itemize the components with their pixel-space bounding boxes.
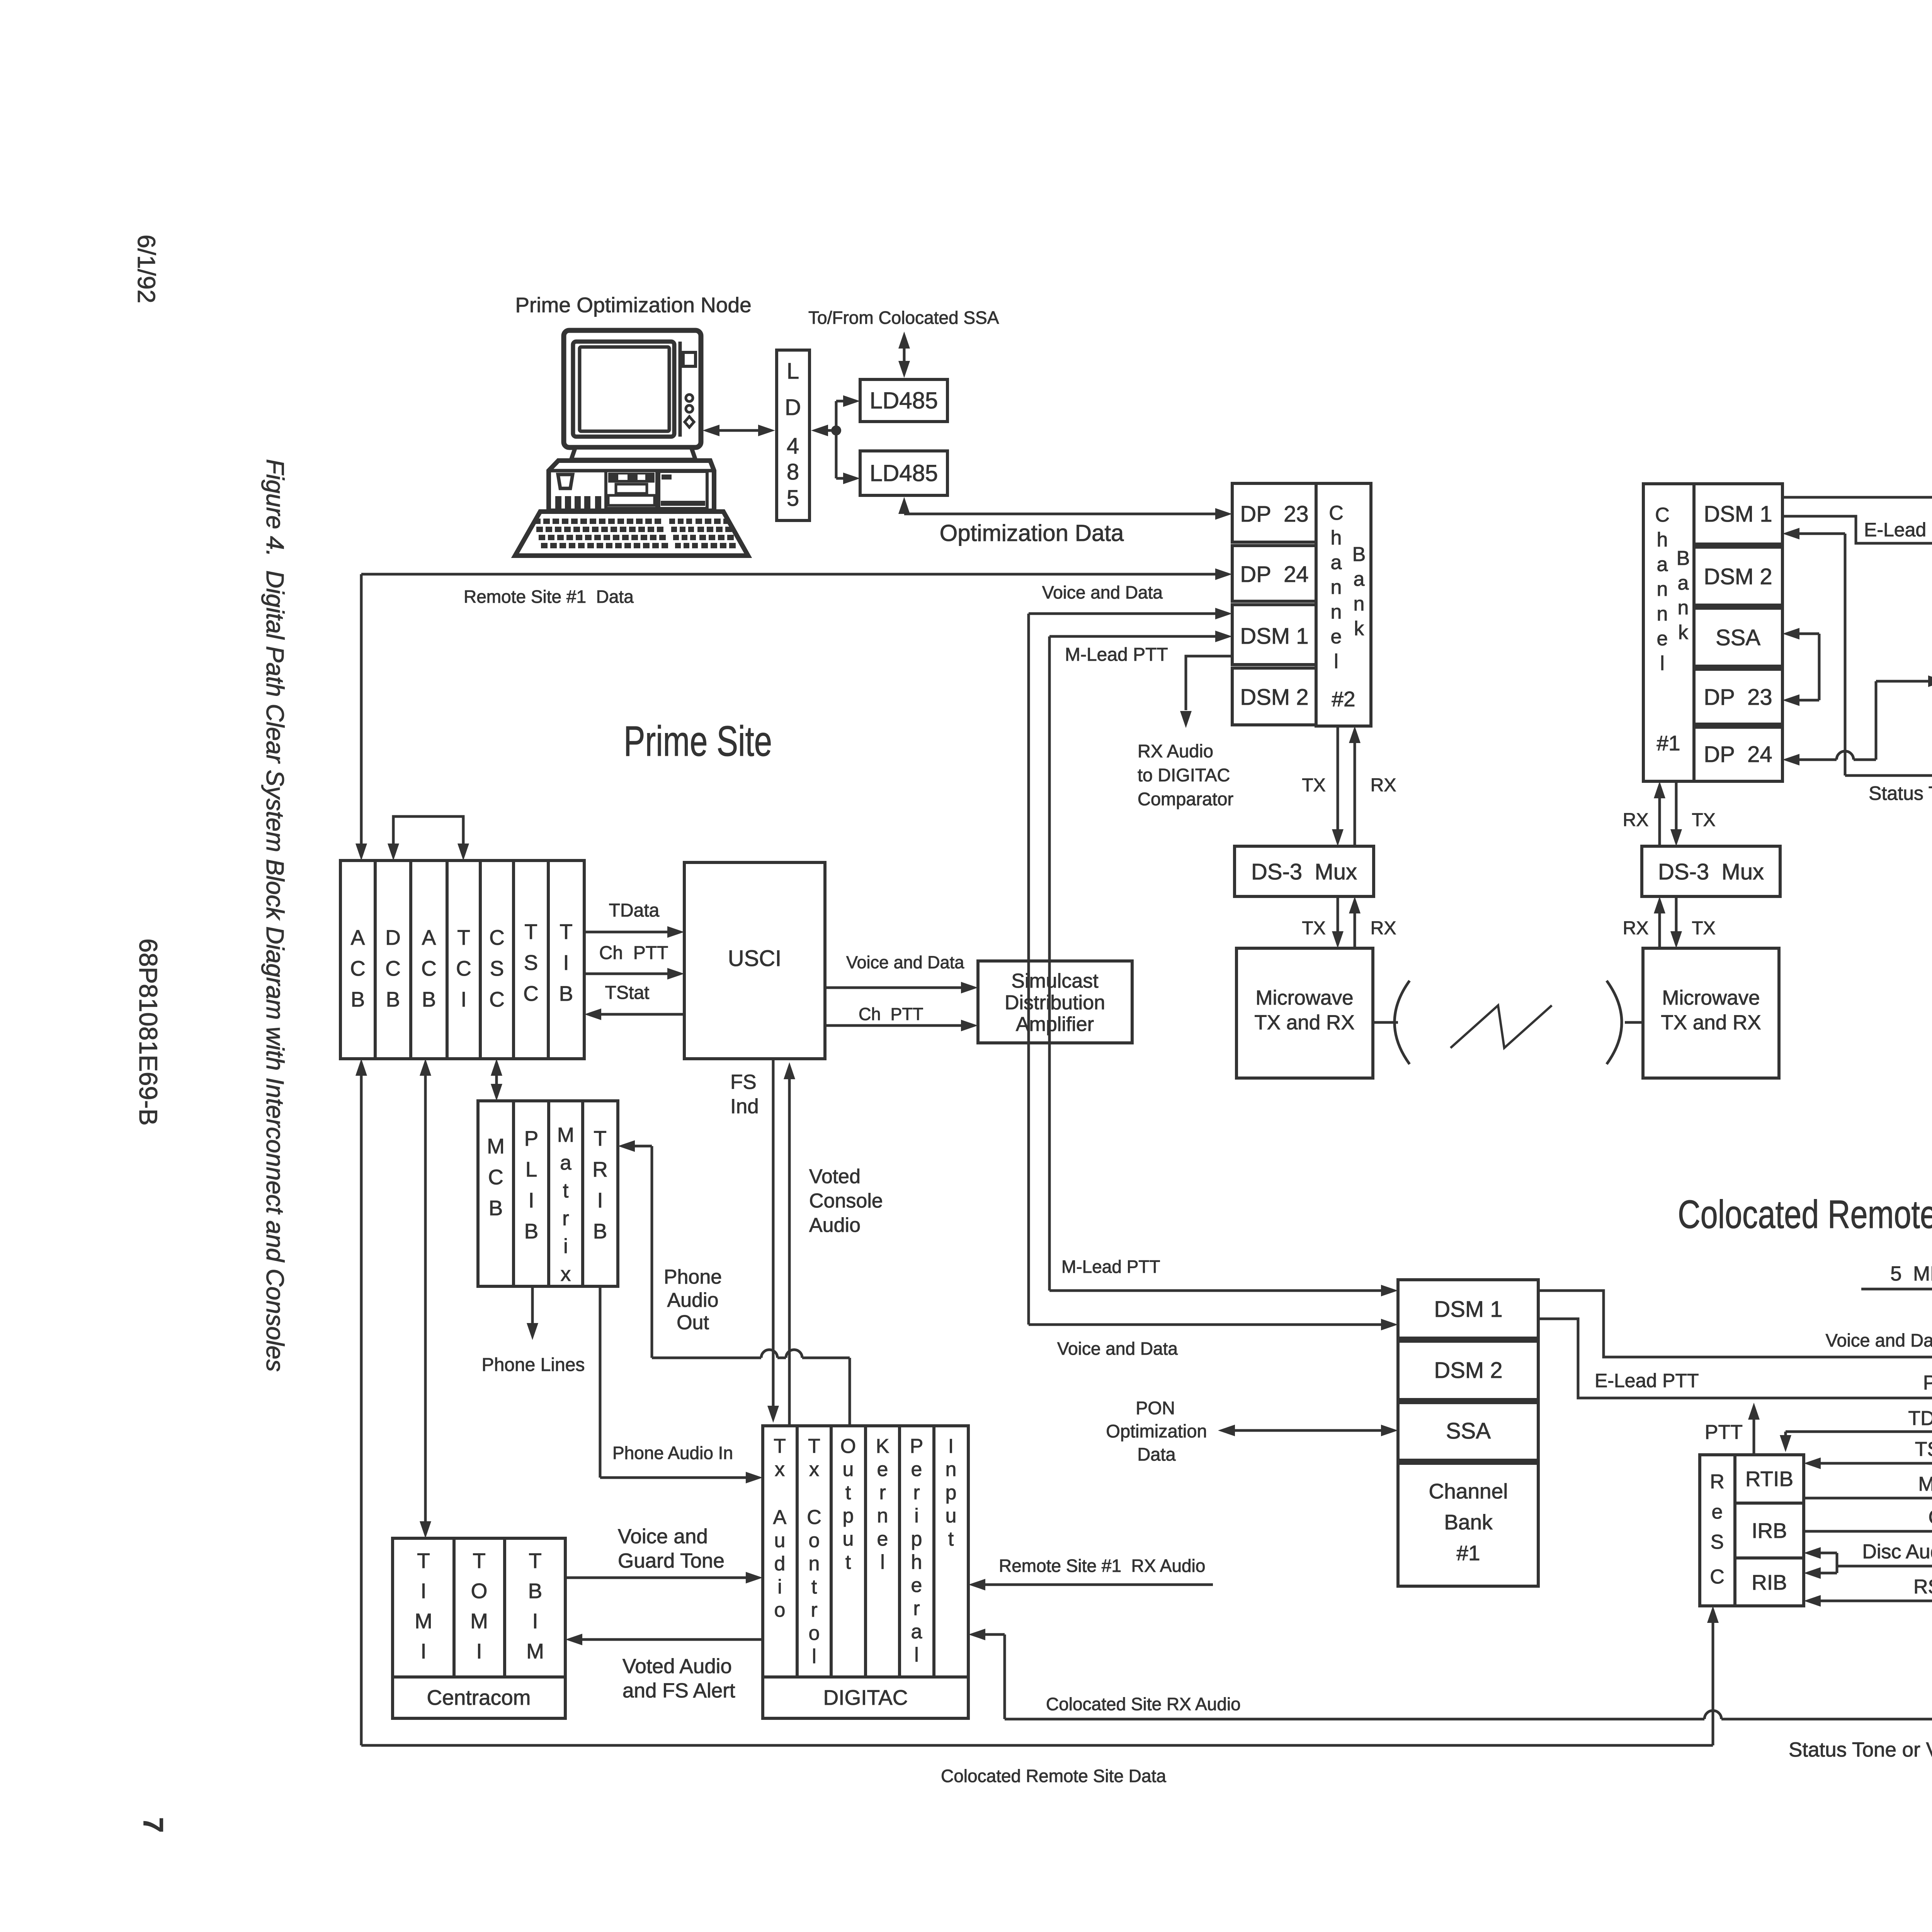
wire LD485 to branch junction xyxy=(827,429,836,432)
svg-text:SSA: SSA xyxy=(1446,1418,1491,1444)
wire RX microwave to DS-3 xyxy=(1354,913,1356,948)
svg-text:L: L xyxy=(526,1157,537,1181)
svg-text:l: l xyxy=(812,1645,816,1668)
svg-text:Phone Lines: Phone Lines xyxy=(482,1355,585,1375)
svg-text:p: p xyxy=(843,1505,854,1527)
svg-text:C: C xyxy=(489,987,505,1011)
svg-text:Ch PTT: Ch PTT xyxy=(599,943,668,963)
svg-text:Ind: Ind xyxy=(730,1095,759,1118)
block IRB (colocated) xyxy=(1735,1503,1804,1558)
block prime control rack xyxy=(340,861,584,1059)
svg-text:n: n xyxy=(877,1505,888,1527)
svg-text:C: C xyxy=(807,1506,821,1529)
svg-text:TX and RX: TX and RX xyxy=(1661,1011,1761,1034)
svg-text:RX Audio: RX Audio xyxy=(1138,741,1213,761)
svg-text:PON: PON xyxy=(1136,1398,1175,1418)
block USCI xyxy=(684,862,825,1059)
svg-text:A: A xyxy=(422,925,436,949)
svg-text:Optimization: Optimization xyxy=(1106,1421,1207,1441)
svg-text:Out: Out xyxy=(677,1311,709,1334)
wire Voice and Data into colocated DSM 1 xyxy=(1029,1323,1382,1326)
svg-text:h: h xyxy=(1657,529,1668,551)
wire phone audio out TRIB to DIGITAC Output xyxy=(634,1145,652,1148)
svg-text:S: S xyxy=(524,951,538,975)
block Microwave TX and RX (remote) xyxy=(1643,948,1779,1078)
wire Remote Site #1 RX Audio into DIGITAC xyxy=(985,1583,1213,1586)
svg-text:to DIGITAC: to DIGITAC xyxy=(1138,765,1230,785)
wire PTT RTIB to PTT line (colocated) xyxy=(1753,1419,1755,1455)
wire TStat USCI to rack xyxy=(600,1013,684,1016)
svg-text:n: n xyxy=(1331,576,1342,599)
svg-text:Voted Audio: Voted Audio xyxy=(622,1655,732,1678)
svg-text:Voice and Data: Voice and Data xyxy=(1057,1338,1178,1359)
svg-text:l: l xyxy=(914,1644,919,1666)
svg-text:e: e xyxy=(877,1458,888,1481)
svg-text:T: T xyxy=(594,1126,607,1150)
wire Phone Lines from PLIB xyxy=(531,1286,534,1324)
wire SSA to DP 23 loop (remote) xyxy=(1799,633,1819,635)
svg-text:a: a xyxy=(911,1621,922,1643)
svg-text:B: B xyxy=(351,987,365,1011)
svg-text:T: T xyxy=(457,925,470,949)
svg-text:Colocated Remote Site Data: Colocated Remote Site Data xyxy=(941,1766,1166,1786)
svg-text:7: 7 xyxy=(138,1817,168,1833)
wire RStat RX to RIB (colocated) xyxy=(1820,1600,1932,1602)
svg-text:t: t xyxy=(845,1551,851,1573)
wire TX DS-3 to microwave xyxy=(1337,896,1339,932)
svg-text:DP 23: DP 23 xyxy=(1704,685,1772,710)
svg-text:o: o xyxy=(809,1529,820,1552)
svg-text:8: 8 xyxy=(787,459,799,485)
wire RX microwave to DS-3 (remote) xyxy=(1658,913,1661,948)
svg-text:a: a xyxy=(560,1151,571,1174)
svg-text:B: B xyxy=(1677,547,1690,570)
svg-text:C: C xyxy=(523,981,539,1005)
wire bracket DCB-TCI tops xyxy=(393,816,463,844)
svg-text:DP 24: DP 24 xyxy=(1704,742,1772,767)
svg-text:r: r xyxy=(811,1599,817,1621)
svg-text:u: u xyxy=(843,1528,854,1550)
block colocated Channel Bank #1 xyxy=(1398,1463,1538,1586)
block colocated bank DSM 1 xyxy=(1398,1280,1538,1338)
svg-text:Microwave: Microwave xyxy=(1662,986,1760,1009)
svg-text:4: 4 xyxy=(787,434,799,459)
svg-text:I: I xyxy=(420,1579,426,1603)
svg-text:e: e xyxy=(1657,628,1668,650)
svg-text:I: I xyxy=(461,987,466,1011)
wire M-Lead PTT riser crossing Simulcast xyxy=(1048,961,1051,1043)
svg-text:C: C xyxy=(350,956,366,980)
svg-text:6/1/92: 6/1/92 xyxy=(133,235,160,303)
wire Voted Console Audio DIGITAC to USCI xyxy=(788,1078,791,1426)
svg-text:Prime Site: Prime Site xyxy=(624,718,772,765)
svg-text:o: o xyxy=(809,1622,820,1645)
svg-text:#2: #2 xyxy=(1332,687,1355,711)
svg-text:RStat: RStat xyxy=(1913,1576,1932,1598)
svg-text:SSA: SSA xyxy=(1716,625,1760,650)
block LD485 #1 xyxy=(860,379,947,422)
svg-text:Voice and: Voice and xyxy=(618,1525,708,1548)
block SSA (remote bank) xyxy=(1694,608,1782,666)
svg-text:TStat: TStat xyxy=(1915,1438,1932,1461)
wire TStat TX to RTIB (colocated) xyxy=(1820,1462,1932,1465)
svg-text:RTIB: RTIB xyxy=(1745,1467,1793,1491)
wire rack ACB to TIMI (bidirectional) xyxy=(424,1076,427,1522)
svg-text:n: n xyxy=(1657,578,1668,600)
wire Disc Audio RX to IRB and RIB (colocated) xyxy=(1837,1565,1932,1568)
computer monitor base xyxy=(571,447,696,460)
svg-text:B: B xyxy=(1352,543,1366,566)
block Microwave TX and RX (prime) xyxy=(1236,948,1373,1078)
svg-text:#1: #1 xyxy=(1656,731,1680,755)
svg-text:e: e xyxy=(911,1574,922,1597)
svg-text:Figure 4. Digital Path Clear: Figure 4. Digital Path Clear System Bloc… xyxy=(261,459,289,1372)
svg-text:Simulcast: Simulcast xyxy=(1011,970,1099,992)
svg-text:5: 5 xyxy=(787,486,799,511)
svg-text:To/From Colocated SSA: To/From Colocated SSA xyxy=(808,308,999,328)
wire prime rack to Colocated Remote Site Data xyxy=(360,1076,363,1745)
svg-text:B: B xyxy=(489,1196,503,1220)
svg-text:x: x xyxy=(775,1458,785,1481)
wire M-Lead PTT riser to DSM 1 (bank 2) xyxy=(1049,635,1216,638)
wire Mute RTIB to RX (colocated) xyxy=(1804,1497,1932,1500)
wire PON Optimization Data to SSA (bidirectional) xyxy=(1235,1429,1382,1432)
block colocated bank DSM 2 xyxy=(1398,1341,1538,1400)
svg-text:RX: RX xyxy=(1623,918,1649,939)
svg-text:p: p xyxy=(911,1528,922,1550)
svg-text:u: u xyxy=(946,1505,957,1527)
svg-text:u: u xyxy=(774,1529,786,1552)
block DSM 1 (bank 2) xyxy=(1232,605,1316,665)
wire Colocated Remote Site Data riser into ReSC xyxy=(1712,1622,1714,1745)
svg-text:K: K xyxy=(876,1435,889,1458)
svg-text:h: h xyxy=(911,1551,922,1573)
wire Remote Site #1 Data (from prime rack to DP 24) xyxy=(361,573,1216,576)
block LD485 line driver (tall) xyxy=(777,350,810,520)
wire Ch PTT USCI to Simulcast xyxy=(825,1024,962,1027)
svg-text:T: T xyxy=(560,920,573,944)
wire TData rack to USCI xyxy=(584,931,668,934)
svg-text:B: B xyxy=(593,1219,607,1243)
wire branch to LD485 #1 xyxy=(836,400,843,403)
svg-text:B: B xyxy=(559,981,573,1005)
svg-text:E-Lead PTT: E-Lead PTT xyxy=(1864,519,1932,541)
svg-text:C: C xyxy=(488,1165,503,1189)
computer monitor xyxy=(564,330,701,447)
svg-text:C: C xyxy=(385,956,401,980)
svg-text:l: l xyxy=(1660,652,1665,675)
svg-text:h: h xyxy=(1331,527,1342,549)
svg-text:x: x xyxy=(561,1263,571,1286)
wire M-Lead PTT into colocated DSM 1 xyxy=(1049,1289,1382,1292)
svg-text:t: t xyxy=(948,1528,954,1550)
svg-text:I: I xyxy=(563,951,569,975)
svg-text:k: k xyxy=(1354,617,1364,640)
svg-text:I: I xyxy=(532,1609,538,1633)
svg-text:A: A xyxy=(351,925,365,949)
svg-text:DS-3 Mux: DS-3 Mux xyxy=(1658,859,1764,884)
svg-text:I: I xyxy=(476,1639,482,1663)
svg-text:TX: TX xyxy=(1302,918,1325,939)
svg-text:Mute: Mute xyxy=(1918,1473,1932,1495)
block DSM 1 (remote bank) xyxy=(1694,484,1782,544)
svg-text:e: e xyxy=(877,1528,888,1550)
svg-text:IRB: IRB xyxy=(1752,1519,1787,1543)
svg-text:Console: Console xyxy=(809,1190,883,1212)
block DSM 2 (remote bank) xyxy=(1694,547,1782,605)
svg-text:LD485: LD485 xyxy=(870,460,938,486)
wire Voice & Data DSM1 to TX (remote) xyxy=(1782,496,1932,499)
block RTIB (colocated) xyxy=(1735,1455,1804,1503)
svg-text:Bank: Bank xyxy=(1444,1510,1493,1534)
svg-text:Voice and Data: Voice and Data xyxy=(1042,582,1163,602)
svg-text:RX: RX xyxy=(1371,775,1396,796)
svg-text:M-Lead PTT: M-Lead PTT xyxy=(1065,645,1168,665)
svg-text:C: C xyxy=(456,956,471,980)
svg-text:p: p xyxy=(946,1481,957,1504)
wire Voice and Data colocated DSM1 to TX xyxy=(1538,1291,1932,1357)
svg-text:Guard Tone: Guard Tone xyxy=(618,1549,724,1572)
wire RX DS-3 Mux to bank2 xyxy=(1354,742,1356,846)
svg-text:CCI: CCI xyxy=(1928,1506,1932,1529)
svg-text:u: u xyxy=(843,1458,854,1481)
svg-text:n: n xyxy=(946,1458,957,1481)
block DP 23 (bank 2) xyxy=(1232,483,1316,542)
svg-text:i: i xyxy=(914,1505,919,1527)
svg-text:x: x xyxy=(809,1458,819,1481)
block LD485 #2 xyxy=(860,451,947,495)
svg-text:k: k xyxy=(1678,621,1689,644)
svg-text:TData: TData xyxy=(609,900,660,921)
block Channel Bank #1 frame (remote) xyxy=(1643,484,1694,781)
block DP 24 (bank 2) xyxy=(1232,546,1316,601)
svg-text:DS-3 Mux: DS-3 Mux xyxy=(1251,859,1357,884)
svg-text:RIB: RIB xyxy=(1752,1570,1787,1594)
svg-text:and FS Alert: and FS Alert xyxy=(622,1679,735,1702)
svg-text:Centracom: Centracom xyxy=(427,1685,531,1709)
svg-text:TX: TX xyxy=(1302,775,1325,796)
block DSM 2 (bank 2) xyxy=(1232,668,1316,725)
svg-text:Audio: Audio xyxy=(667,1289,719,1311)
block Simulcast Distribution Amplifier xyxy=(978,961,1132,1043)
svg-text:l: l xyxy=(880,1551,885,1573)
svg-text:R: R xyxy=(592,1157,608,1181)
svg-text:#1: #1 xyxy=(1456,1541,1480,1565)
svg-text:Voted: Voted xyxy=(809,1165,861,1188)
svg-text:C: C xyxy=(1710,1566,1725,1588)
svg-text:RX: RX xyxy=(1371,918,1396,939)
svg-text:TX and RX: TX and RX xyxy=(1254,1011,1354,1034)
svg-text:Channel: Channel xyxy=(1429,1479,1508,1503)
svg-text:e: e xyxy=(911,1458,922,1481)
svg-text:M: M xyxy=(470,1609,488,1633)
svg-text:C: C xyxy=(489,925,505,949)
svg-text:M-Lead PTT: M-Lead PTT xyxy=(1061,1257,1160,1277)
svg-text:LD485: LD485 xyxy=(870,388,938,413)
wire TData TX to RTIB (colocated) xyxy=(1786,1430,1932,1433)
svg-text:Audio: Audio xyxy=(809,1214,861,1236)
svg-text:B: B xyxy=(422,987,436,1011)
svg-text:TX: TX xyxy=(1692,918,1715,939)
computer badge xyxy=(558,474,573,488)
svg-text:T: T xyxy=(524,920,537,944)
wire E-Lead PTT DSM1 to TX PTT (remote) xyxy=(1782,516,1932,543)
antenna dish (prime microwave) xyxy=(1373,1021,1398,1024)
svg-text:C: C xyxy=(1329,502,1344,524)
wire TX bank2 to DS-3 Mux xyxy=(1337,726,1339,830)
svg-text:USCI: USCI xyxy=(728,946,782,971)
svg-text:PTT: PTT xyxy=(1923,1372,1932,1394)
svg-text:DSM 2: DSM 2 xyxy=(1704,564,1772,589)
svg-text:O: O xyxy=(840,1435,856,1458)
svg-text:T: T xyxy=(529,1549,542,1573)
svg-text:DSM 1: DSM 1 xyxy=(1434,1297,1502,1322)
svg-text:a: a xyxy=(1657,553,1668,576)
svg-text:I: I xyxy=(597,1188,603,1212)
svg-text:i: i xyxy=(777,1576,782,1598)
svg-text:T: T xyxy=(808,1435,820,1458)
svg-text:R: R xyxy=(1710,1471,1725,1493)
svg-text:a: a xyxy=(1354,568,1365,590)
svg-text:Voice and Data: Voice and Data xyxy=(1826,1330,1932,1350)
svg-text:Comparator: Comparator xyxy=(1138,789,1233,809)
svg-text:Status Tone or Voice: Status Tone or Voice xyxy=(1789,1738,1932,1761)
block colocated bank SSA xyxy=(1398,1403,1538,1460)
svg-text:DP 23: DP 23 xyxy=(1240,502,1308,527)
svg-text:E-Lead PTT: E-Lead PTT xyxy=(1595,1370,1699,1391)
wire Voice and Data USCI to Simulcast xyxy=(825,986,962,989)
wire To/From Colocated SSA to LD485 #1 (bidirectional) xyxy=(903,346,906,366)
svg-text:Microwave: Microwave xyxy=(1255,986,1353,1009)
computer keyboard xyxy=(515,512,748,556)
block DS-3 Mux (prime) xyxy=(1235,846,1374,896)
svg-text:r: r xyxy=(879,1481,886,1504)
svg-text:Disc Audio: Disc Audio xyxy=(1862,1541,1932,1563)
block DP 24 (remote bank) xyxy=(1694,727,1782,781)
svg-text:n: n xyxy=(1331,601,1342,623)
svg-text:n: n xyxy=(1354,593,1365,615)
svg-text:t: t xyxy=(811,1576,817,1598)
svg-text:e: e xyxy=(1331,626,1342,648)
svg-text:I: I xyxy=(420,1639,426,1663)
svg-text:d: d xyxy=(774,1553,786,1575)
svg-text:C: C xyxy=(1655,504,1670,526)
svg-text:FS: FS xyxy=(730,1071,757,1094)
svg-text:TStat: TStat xyxy=(605,983,650,1003)
block RIB (colocated) xyxy=(1735,1558,1804,1606)
svg-text:n: n xyxy=(809,1553,820,1575)
svg-text:B: B xyxy=(386,987,400,1011)
svg-text:T: T xyxy=(417,1549,430,1573)
svg-text:Phone: Phone xyxy=(664,1266,722,1288)
svg-text:Remote Site #1 RX Audio: Remote Site #1 RX Audio xyxy=(999,1556,1205,1576)
svg-text:r: r xyxy=(913,1597,920,1620)
svg-text:PTT: PTT xyxy=(1705,1421,1743,1444)
wire TX DS-3 to microwave (remote) xyxy=(1675,896,1678,932)
antenna dish (remote microwave) xyxy=(1607,981,1622,1064)
svg-text:a: a xyxy=(1678,572,1689,594)
wire TX bank1 to DS-3 (remote) xyxy=(1675,781,1678,830)
wire 5 MHz into REF SYNTH (colocated) xyxy=(1861,1288,1932,1291)
wire Voted Audio and FS Alert DIGITAC to Centracom xyxy=(582,1638,763,1641)
svg-text:DP 24: DP 24 xyxy=(1240,562,1308,587)
svg-text:i: i xyxy=(563,1235,568,1258)
svg-text:DSM 1: DSM 1 xyxy=(1704,502,1772,527)
svg-text:Ch PTT: Ch PTT xyxy=(859,1004,923,1024)
computer drive bay xyxy=(606,471,657,509)
svg-text:M: M xyxy=(557,1124,574,1146)
svg-text:T: T xyxy=(774,1435,786,1458)
svg-text:t: t xyxy=(563,1179,569,1202)
svg-text:Prime Optimization Node: Prime Optimization Node xyxy=(515,293,751,317)
svg-text:Phone Audio In: Phone Audio In xyxy=(612,1443,733,1463)
svg-text:Optimization Data: Optimization Data xyxy=(940,520,1124,546)
computer monitor control strip xyxy=(679,342,682,437)
microwave link zigzag xyxy=(1451,1005,1552,1048)
svg-text:M: M xyxy=(415,1609,432,1633)
wire Status Tone riser to DSM 1 (remote) xyxy=(1799,532,1845,535)
svg-text:r: r xyxy=(562,1207,569,1230)
svg-text:RX: RX xyxy=(1623,810,1649,830)
wire RX DS-3 to bank1 (remote) xyxy=(1658,798,1661,846)
svg-text:Voice and Data: Voice and Data xyxy=(846,952,964,972)
wire Status Tone or Voice S-TAC to riser (remote) xyxy=(1845,774,1932,777)
block Channel Bank #2 frame xyxy=(1316,483,1371,726)
svg-text:M: M xyxy=(526,1639,544,1663)
svg-text:TData: TData xyxy=(1908,1407,1932,1430)
wire Voice and Data riser crossing Simulcast xyxy=(1027,961,1030,1043)
svg-text:68P81081E69-B: 68P81081E69-B xyxy=(134,939,163,1126)
svg-text:5 MHz: 5 MHz xyxy=(1890,1262,1932,1285)
block console interface rack MCB/PLIB/Matrix/TRIB xyxy=(478,1101,618,1286)
svg-text:P: P xyxy=(910,1435,923,1458)
svg-text:O: O xyxy=(471,1579,488,1603)
svg-text:Status Tone or Voice: Status Tone or Voice xyxy=(1869,782,1932,804)
wire computer to LD485 (bidirectional) xyxy=(711,429,767,432)
svg-text:a: a xyxy=(1331,551,1342,574)
svg-text:r: r xyxy=(913,1481,920,1504)
svg-text:P: P xyxy=(524,1126,539,1150)
computer vent bars xyxy=(555,496,561,511)
svg-text:DSM 1: DSM 1 xyxy=(1240,624,1308,649)
svg-text:DSM 2: DSM 2 xyxy=(1240,685,1308,710)
svg-text:C: C xyxy=(421,956,437,980)
block DS-3 Mux (remote) xyxy=(1642,846,1780,896)
wire Ch PTT rack to USCI xyxy=(584,973,668,975)
wire CSC to MCB rack (bidirectional) xyxy=(495,1076,498,1084)
svg-text:Remote Site #1 Data: Remote Site #1 Data xyxy=(464,587,634,607)
svg-text:M: M xyxy=(487,1134,505,1158)
computer floppy drive xyxy=(659,471,707,509)
svg-text:S: S xyxy=(490,956,504,980)
svg-text:l: l xyxy=(1334,650,1338,673)
svg-text:o: o xyxy=(774,1599,786,1621)
svg-text:n: n xyxy=(1657,603,1668,625)
wire branch to LD485 #2 xyxy=(836,477,843,480)
wire Voice and Guard Tone Centracom to DIGITAC xyxy=(565,1577,747,1579)
svg-text:D: D xyxy=(385,925,401,949)
wire Phone Audio In to DIGITAC Tx Audio xyxy=(599,1286,602,1478)
svg-text:DIGITAC: DIGITAC xyxy=(823,1685,908,1709)
svg-text:e: e xyxy=(1712,1501,1723,1523)
svg-text:Colocated Site RX Audio: Colocated Site RX Audio xyxy=(1046,1694,1241,1714)
wire E-Lead PTT colocated DSM1 to TX xyxy=(1538,1319,1932,1398)
wire Optimization Data from SSA to LD485 #2 and DP 23 xyxy=(903,511,906,514)
svg-text:D: D xyxy=(785,395,801,420)
block Centracom console TIMI/TOMI/TBIM xyxy=(393,1538,565,1718)
svg-text:Data: Data xyxy=(1137,1444,1176,1464)
svg-text:Colocated Remote: Colocated Remote xyxy=(1678,1192,1932,1236)
